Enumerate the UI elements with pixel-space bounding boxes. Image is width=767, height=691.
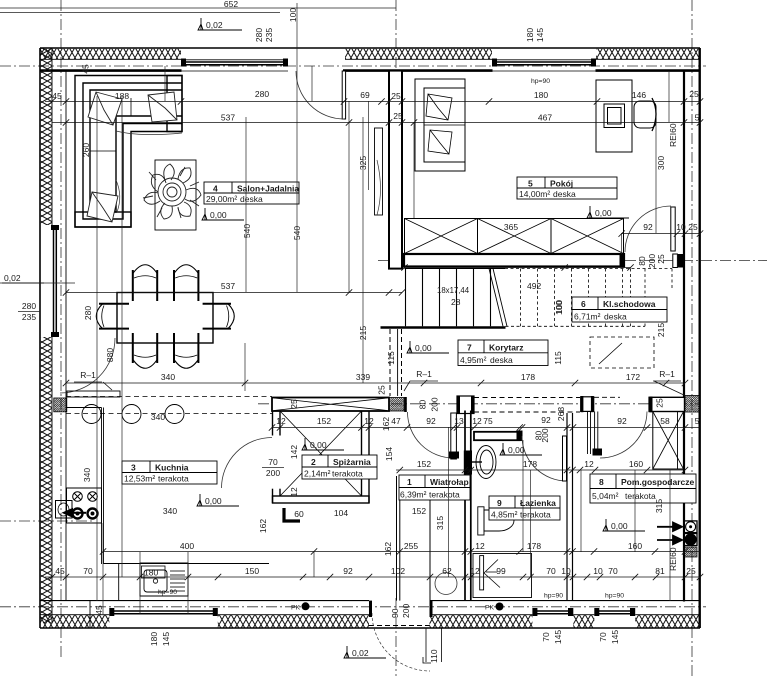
svg-text:200: 200 bbox=[266, 468, 280, 478]
svg-text:104: 104 bbox=[334, 508, 348, 518]
svg-text:terakota: terakota bbox=[625, 491, 656, 501]
svg-text:2: 2 bbox=[311, 457, 316, 467]
svg-text:70: 70 bbox=[598, 632, 608, 642]
svg-text:492: 492 bbox=[527, 281, 541, 291]
svg-text:terakota: terakota bbox=[158, 474, 189, 484]
svg-text:215: 215 bbox=[358, 326, 368, 340]
svg-text:90: 90 bbox=[390, 608, 400, 618]
svg-text:5: 5 bbox=[528, 179, 533, 189]
svg-text:7: 7 bbox=[467, 343, 472, 353]
svg-text:5,04m²: 5,04m² bbox=[592, 491, 619, 501]
svg-text:540: 540 bbox=[292, 226, 302, 240]
svg-text:Kuchnia: Kuchnia bbox=[155, 463, 189, 473]
svg-text:160: 160 bbox=[629, 459, 643, 469]
svg-text:4,85m²: 4,85m² bbox=[491, 510, 518, 520]
svg-text:92: 92 bbox=[426, 416, 436, 426]
svg-text:315: 315 bbox=[654, 499, 664, 513]
svg-text:0,00: 0,00 bbox=[508, 445, 525, 455]
svg-text:75: 75 bbox=[483, 416, 493, 426]
svg-text:10: 10 bbox=[561, 566, 571, 576]
svg-text:200: 200 bbox=[401, 604, 411, 618]
svg-text:0,02: 0,02 bbox=[4, 273, 21, 283]
svg-text:5: 5 bbox=[695, 113, 700, 123]
svg-text:102: 102 bbox=[391, 566, 405, 576]
svg-text:0,02: 0,02 bbox=[352, 648, 369, 658]
svg-text:8: 8 bbox=[599, 477, 604, 487]
svg-text:10: 10 bbox=[676, 222, 686, 232]
svg-text:145: 145 bbox=[161, 632, 171, 646]
svg-text:70: 70 bbox=[541, 632, 551, 642]
svg-text:Korytarz: Korytarz bbox=[489, 343, 523, 353]
svg-text:hp=90: hp=90 bbox=[531, 78, 550, 85]
svg-text:100: 100 bbox=[554, 300, 564, 314]
svg-text:172: 172 bbox=[626, 372, 640, 382]
svg-text:180: 180 bbox=[534, 90, 548, 100]
svg-text:215: 215 bbox=[656, 323, 666, 337]
svg-text:180: 180 bbox=[144, 568, 158, 578]
svg-text:300: 300 bbox=[656, 156, 666, 170]
svg-text:70: 70 bbox=[83, 566, 93, 576]
svg-text:12: 12 bbox=[276, 416, 286, 426]
svg-text:hp=90: hp=90 bbox=[605, 593, 624, 600]
svg-text:10: 10 bbox=[593, 566, 603, 576]
svg-text:200: 200 bbox=[540, 428, 550, 442]
svg-text:25: 25 bbox=[391, 91, 401, 101]
svg-text:537: 537 bbox=[221, 113, 235, 123]
svg-text:Łazienka: Łazienka bbox=[520, 498, 556, 508]
svg-text:45: 45 bbox=[55, 566, 65, 576]
svg-text:25: 25 bbox=[289, 399, 299, 409]
svg-text:340: 340 bbox=[82, 468, 92, 482]
svg-text:9: 9 bbox=[497, 498, 502, 508]
svg-text:1: 1 bbox=[407, 477, 412, 487]
svg-text:365: 365 bbox=[504, 222, 518, 232]
svg-text:200: 200 bbox=[430, 397, 440, 411]
svg-text:280: 280 bbox=[255, 89, 269, 99]
svg-text:280: 280 bbox=[22, 301, 36, 311]
svg-text:R–1: R–1 bbox=[659, 369, 675, 379]
svg-text:deska: deska bbox=[553, 189, 576, 199]
svg-text:0,00: 0,00 bbox=[310, 440, 327, 450]
svg-text:178: 178 bbox=[521, 372, 535, 382]
svg-text:terakota: terakota bbox=[332, 469, 363, 479]
svg-text:540: 540 bbox=[242, 224, 252, 238]
svg-text:467: 467 bbox=[538, 113, 552, 123]
svg-text:92: 92 bbox=[541, 415, 551, 425]
svg-text:0,00: 0,00 bbox=[205, 496, 222, 506]
svg-text:25: 25 bbox=[689, 89, 699, 99]
svg-text:235: 235 bbox=[22, 312, 36, 322]
svg-text:Wiatrołap: Wiatrołap bbox=[430, 477, 469, 487]
svg-text:25: 25 bbox=[656, 254, 666, 264]
svg-text:12: 12 bbox=[584, 459, 594, 469]
svg-text:R–1: R–1 bbox=[416, 369, 432, 379]
svg-text:12: 12 bbox=[364, 416, 374, 426]
svg-text:0,00: 0,00 bbox=[611, 521, 628, 531]
svg-text:Spiżarnia: Spiżarnia bbox=[333, 457, 371, 467]
svg-text:880: 880 bbox=[105, 348, 115, 362]
svg-text:80: 80 bbox=[637, 256, 647, 266]
svg-text:92: 92 bbox=[343, 566, 353, 576]
svg-text:Salon+Jadalnia: Salon+Jadalnia bbox=[237, 184, 299, 194]
svg-text:PK: PK bbox=[291, 605, 301, 612]
svg-text:0,00: 0,00 bbox=[595, 208, 612, 218]
svg-text:160: 160 bbox=[628, 541, 642, 551]
svg-text:150: 150 bbox=[245, 566, 259, 576]
svg-text:115: 115 bbox=[553, 351, 563, 365]
svg-text:hp=90: hp=90 bbox=[158, 589, 177, 596]
svg-text:652: 652 bbox=[224, 0, 238, 9]
svg-text:268: 268 bbox=[556, 407, 566, 421]
svg-text:12: 12 bbox=[470, 566, 480, 576]
svg-text:315: 315 bbox=[435, 516, 445, 530]
svg-text:340: 340 bbox=[161, 372, 175, 382]
svg-text:0,00: 0,00 bbox=[210, 210, 227, 220]
svg-text:115: 115 bbox=[386, 351, 396, 365]
svg-text:PK: PK bbox=[485, 605, 495, 612]
svg-text:188: 188 bbox=[115, 91, 129, 101]
svg-text:58: 58 bbox=[660, 416, 670, 426]
svg-text:Pokój: Pokój bbox=[550, 179, 573, 189]
svg-text:29,00m²: 29,00m² bbox=[206, 194, 237, 204]
svg-text:12,53m²: 12,53m² bbox=[124, 474, 155, 484]
svg-text:100: 100 bbox=[288, 8, 298, 22]
svg-text:60: 60 bbox=[294, 509, 304, 519]
svg-text:152: 152 bbox=[412, 506, 426, 516]
svg-text:25: 25 bbox=[655, 398, 665, 408]
svg-text:25: 25 bbox=[377, 385, 387, 395]
svg-text:6: 6 bbox=[581, 299, 586, 309]
svg-text:180: 180 bbox=[525, 28, 535, 42]
svg-text:25: 25 bbox=[688, 222, 698, 232]
svg-text:152: 152 bbox=[317, 416, 331, 426]
svg-text:5: 5 bbox=[695, 416, 700, 426]
svg-text:340: 340 bbox=[163, 506, 177, 516]
svg-text:70: 70 bbox=[546, 566, 556, 576]
svg-text:14,00m²: 14,00m² bbox=[519, 189, 550, 199]
svg-text:REI60: REI60 bbox=[668, 547, 678, 571]
svg-text:18x17,44: 18x17,44 bbox=[437, 286, 470, 295]
svg-text:70: 70 bbox=[608, 566, 618, 576]
svg-text:hp=90: hp=90 bbox=[544, 593, 563, 600]
svg-text:deska: deska bbox=[604, 312, 627, 322]
svg-text:260: 260 bbox=[81, 143, 91, 157]
svg-text:deska: deska bbox=[490, 355, 513, 365]
svg-text:2,14m²: 2,14m² bbox=[304, 469, 331, 479]
svg-text:45: 45 bbox=[52, 91, 62, 101]
svg-text:142: 142 bbox=[289, 445, 299, 459]
svg-text:12: 12 bbox=[475, 541, 485, 551]
svg-text:Pom.gospodarcze: Pom.gospodarcze bbox=[621, 477, 694, 487]
svg-text:145: 145 bbox=[535, 28, 545, 42]
svg-text:12: 12 bbox=[472, 416, 482, 426]
svg-text:92: 92 bbox=[643, 222, 653, 232]
svg-text:235: 235 bbox=[264, 28, 274, 42]
svg-text:180: 180 bbox=[149, 632, 159, 646]
svg-text:152: 152 bbox=[417, 459, 431, 469]
svg-text:110: 110 bbox=[429, 649, 439, 663]
svg-text:339: 339 bbox=[356, 372, 370, 382]
svg-text:6,39m²: 6,39m² bbox=[400, 490, 427, 500]
svg-text:280: 280 bbox=[254, 28, 264, 42]
svg-text:4: 4 bbox=[213, 184, 218, 194]
svg-text:81: 81 bbox=[655, 566, 665, 576]
svg-text:537: 537 bbox=[221, 281, 235, 291]
svg-text:146: 146 bbox=[632, 90, 646, 100]
svg-text:162: 162 bbox=[381, 417, 391, 431]
svg-text:0,02: 0,02 bbox=[206, 20, 223, 30]
svg-text:6,71m²: 6,71m² bbox=[574, 312, 601, 322]
svg-text:12: 12 bbox=[289, 487, 299, 497]
svg-text:280: 280 bbox=[83, 306, 93, 320]
svg-text:45: 45 bbox=[81, 64, 91, 74]
svg-text:162: 162 bbox=[383, 542, 393, 556]
svg-text:69: 69 bbox=[360, 90, 370, 100]
svg-text:92: 92 bbox=[617, 416, 627, 426]
svg-text:70: 70 bbox=[268, 457, 278, 467]
svg-text:deska: deska bbox=[240, 194, 263, 204]
svg-text:45: 45 bbox=[94, 605, 104, 615]
svg-text:R–1: R–1 bbox=[80, 370, 96, 380]
svg-text:REI60: REI60 bbox=[668, 123, 678, 147]
svg-text:325: 325 bbox=[358, 156, 368, 170]
svg-text:3: 3 bbox=[131, 463, 136, 473]
svg-text:145: 145 bbox=[610, 630, 620, 644]
svg-text:47: 47 bbox=[391, 416, 401, 426]
svg-text:162: 162 bbox=[258, 519, 268, 533]
svg-text:145: 145 bbox=[553, 630, 563, 644]
svg-text:178: 178 bbox=[527, 541, 541, 551]
svg-text:0,00: 0,00 bbox=[415, 343, 432, 353]
svg-text:Kl.schodowa: Kl.schodowa bbox=[603, 299, 656, 309]
svg-text:80: 80 bbox=[418, 400, 428, 410]
svg-text:4,95m²: 4,95m² bbox=[460, 355, 487, 365]
svg-text:terakota: terakota bbox=[520, 510, 551, 520]
svg-text:340: 340 bbox=[151, 412, 165, 422]
svg-text:255: 255 bbox=[404, 541, 418, 551]
svg-text:62: 62 bbox=[442, 566, 452, 576]
svg-text:178: 178 bbox=[523, 459, 537, 469]
svg-text:13: 13 bbox=[454, 416, 464, 426]
svg-text:400: 400 bbox=[180, 541, 194, 551]
svg-text:99: 99 bbox=[496, 566, 506, 576]
svg-text:25: 25 bbox=[686, 566, 696, 576]
svg-text:terakota: terakota bbox=[429, 490, 460, 500]
svg-text:154: 154 bbox=[384, 447, 394, 461]
svg-text:25: 25 bbox=[393, 111, 403, 121]
svg-text:28: 28 bbox=[451, 297, 461, 307]
